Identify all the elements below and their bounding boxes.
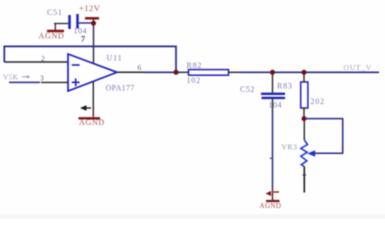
svg-text:2: 2 xyxy=(41,54,45,63)
power +12V xyxy=(79,3,101,23)
bottom edge band xyxy=(0,214,385,219)
capacitor C51 xyxy=(54,14,92,29)
junction feedback xyxy=(174,70,179,75)
resistor R83 xyxy=(301,74,308,117)
resistor R82 xyxy=(181,70,240,76)
svg-text:AGND: AGND xyxy=(260,202,282,210)
capacitor C52 xyxy=(261,74,285,98)
svg-text:C51: C51 xyxy=(47,8,63,17)
ground AGND (C52) xyxy=(260,191,282,210)
svg-text:102: 102 xyxy=(187,76,201,85)
svg-text:OUT_V: OUT_V xyxy=(344,63,373,72)
wire R82 to OUT_V xyxy=(240,71,380,73)
svg-text:R83: R83 xyxy=(277,82,293,91)
wire C52 to AGND xyxy=(272,99,274,201)
ground AGND (C51) xyxy=(39,24,65,41)
svg-text:V5K: V5K xyxy=(3,73,19,82)
wiper loop wire xyxy=(306,119,343,154)
svg-text:AGND: AGND xyxy=(39,32,65,41)
svg-text:C52: C52 xyxy=(240,85,255,94)
svg-text:OPA177: OPA177 xyxy=(106,84,135,93)
svg-text:U11: U11 xyxy=(107,54,123,63)
pin 6 lead xyxy=(117,71,144,73)
svg-text:6: 6 xyxy=(138,63,142,72)
pin 3 lead xyxy=(41,81,68,83)
junction +12V / pin7 xyxy=(91,21,96,26)
op-amp U11 xyxy=(68,54,117,91)
svg-text:AGND: AGND xyxy=(79,118,105,127)
tick on VR3 lead xyxy=(303,174,306,176)
tick on C52 ground wire xyxy=(270,157,273,159)
svg-text:7: 7 xyxy=(81,35,85,44)
wire V5K to pin 3 xyxy=(9,81,40,83)
wire pin 7 vertical xyxy=(93,25,95,63)
svg-text:202: 202 xyxy=(311,97,325,106)
svg-text:VR3: VR3 xyxy=(282,143,298,152)
svg-text:3: 3 xyxy=(40,73,44,82)
ground AGND (op-amp) xyxy=(79,118,105,127)
junction R83 / VR3 xyxy=(302,116,307,121)
port V5K xyxy=(3,73,30,82)
potentiometer VR3 xyxy=(301,121,308,193)
feedback wire (pin2 to output) xyxy=(4,46,176,70)
junction R83 xyxy=(302,70,307,75)
svg-text:104: 104 xyxy=(269,101,283,110)
svg-text:+12V: +12V xyxy=(79,3,101,13)
svg-text:R82: R82 xyxy=(187,61,203,70)
pin 2 lead xyxy=(4,61,68,63)
pin number 4 marker xyxy=(80,105,91,111)
junction C52 xyxy=(270,70,275,75)
wiper arrow of VR3 xyxy=(307,150,315,157)
wire pin 4 vertical xyxy=(92,82,94,117)
wire pin6 to R82 xyxy=(144,71,181,73)
